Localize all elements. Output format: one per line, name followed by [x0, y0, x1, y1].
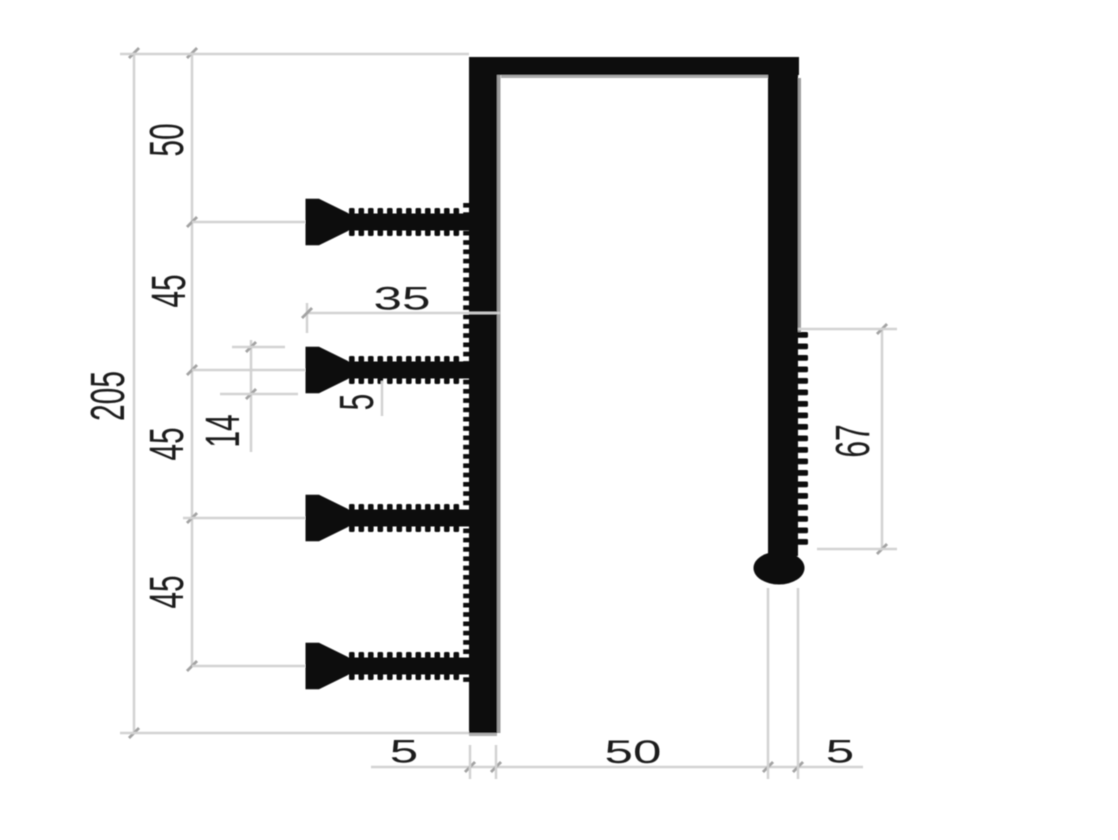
svg-text:5: 5 [390, 734, 418, 770]
svg-text:205: 205 [82, 371, 135, 421]
grey shadow under web bottom [469, 733, 497, 736]
extension line to anchor 1 [192, 221, 305, 224]
serration teeth on right edge of right leg [795, 332, 808, 545]
svg-text:50: 50 [605, 735, 662, 771]
ribbed anchor arm 4 with arrow head [306, 643, 472, 689]
svg-text:35: 35 [374, 281, 431, 317]
35 dimension line [302, 303, 500, 333]
label 50 [141, 123, 194, 156]
label 45 upper [143, 274, 196, 307]
chain dimension line 50/45/45/45 [187, 48, 197, 671]
serration teeth on left edge of main web [463, 203, 470, 682]
grey shadow edge right of main web [497, 75, 501, 733]
label 50 bottom [605, 735, 662, 771]
right vertical leg of profile [768, 73, 798, 556]
label 45 lower [141, 575, 194, 608]
svg-text:45: 45 [141, 427, 194, 460]
grey shadow edge under top flange [501, 75, 769, 78]
label 205 [82, 371, 135, 421]
label 35 [374, 281, 431, 317]
label 5 web thickness [390, 734, 418, 770]
14 dimension line [220, 340, 298, 452]
svg-text:14: 14 [197, 414, 250, 447]
ribbed anchor arm 3 with arrow head [306, 495, 472, 541]
svg-text:5: 5 [826, 734, 854, 770]
extension line to anchor 3 [183, 517, 305, 520]
ribbed anchor arm 2 with arrow head [306, 347, 472, 393]
bottom dimension line 5/50/5 [371, 588, 863, 779]
svg-text:50: 50 [141, 123, 194, 156]
top horizontal flange of profile [469, 57, 799, 75]
extension line to anchor 4 [192, 665, 305, 668]
extension line at web bottom [120, 732, 469, 735]
svg-text:5: 5 [331, 394, 384, 411]
67 dimension line [798, 324, 897, 554]
main vertical web of profile [469, 57, 497, 733]
ribbed anchor arm 1 with arrow head [306, 199, 472, 245]
svg-text:45: 45 [141, 575, 194, 608]
label 67 [827, 424, 880, 457]
label 5 leg thickness [826, 734, 854, 770]
extension line to anchor 2 [192, 369, 305, 372]
overall 205 dimension line [129, 48, 139, 738]
svg-text:67: 67 [827, 424, 880, 457]
label 5 stem [331, 394, 384, 411]
grey shadow edge right of right leg [798, 78, 801, 332]
5 stem dimension line [381, 381, 384, 416]
svg-text:45: 45 [143, 274, 196, 307]
label 45 middle [141, 427, 194, 460]
round bulb at bottom of right leg [754, 552, 805, 585]
label 14 [197, 414, 250, 447]
extension line at profile top [120, 53, 469, 56]
